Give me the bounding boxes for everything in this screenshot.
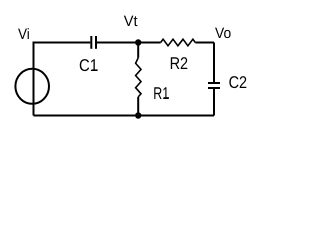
svg-text:R2: R2 bbox=[170, 54, 189, 73]
wire: R2 lead from Vt node bbox=[138, 42, 160, 44]
svg-text:R1: R1 bbox=[153, 84, 169, 103]
svg-text:Vo: Vo bbox=[215, 25, 231, 42]
capacitor C1 right plate bbox=[95, 36, 97, 49]
wire: R1 top stub from Vt node bbox=[137, 43, 139, 58]
wire: left loop from bottom-left corner up to top-left corner and right to C1 bbox=[34, 43, 91, 116]
wire: bottom rail bbox=[34, 115, 215, 117]
svg-text:Vt: Vt bbox=[124, 13, 139, 30]
wire: C1 right plate to top-right corner bbox=[97, 42, 138, 44]
voltage source V ellipse bbox=[15, 69, 49, 104]
capacitor C2 bottom plate bbox=[208, 87, 220, 89]
svg-text:C2: C2 bbox=[229, 73, 248, 92]
svg-text:Vi: Vi bbox=[18, 26, 30, 43]
wire: R2 lead to top-right corner bbox=[195, 42, 214, 44]
resistor R2 bbox=[161, 39, 196, 46]
resistor R1 bbox=[136, 58, 141, 97]
wire: right vertical from top-right corner to C2 top plate bbox=[213, 43, 215, 84]
node: bottom junction dot bbox=[135, 112, 141, 118]
capacitor C2 top plate bbox=[208, 82, 220, 84]
capacitor C1 left plate bbox=[90, 36, 92, 49]
wire: R1 bottom stub to bottom rail bbox=[137, 97, 139, 116]
serif foot for 1 in R1 bbox=[164, 97, 169, 99]
svg-text:C1: C1 bbox=[79, 56, 98, 75]
serif foot for 1 in C1 bbox=[92, 69, 98, 71]
wire: C2 bottom plate to bottom-right corner bbox=[213, 88, 215, 116]
node Vt junction dot bbox=[135, 39, 141, 45]
